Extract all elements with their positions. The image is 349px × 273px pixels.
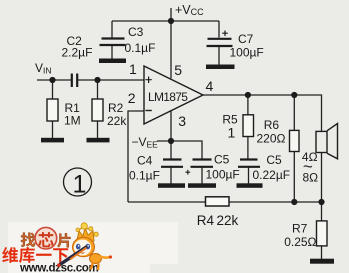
- capacitor C5a 100uF: [191, 160, 214, 167]
- wire C2 to pin1: [78, 79, 144, 81]
- resistor R5: [243, 115, 254, 137]
- node Vee junction: [168, 138, 174, 144]
- svg-text:22k: 22k: [107, 114, 127, 128]
- node circled figure 1: [64, 168, 92, 196]
- wire R2 bottom: [97, 121, 99, 139]
- watermark text yi: [36, 254, 52, 256]
- wire R5 top: [247, 95, 249, 115]
- mascot crown: [77, 228, 94, 242]
- svg-text:C3: C3: [128, 25, 144, 39]
- ground R1: [41, 138, 64, 143]
- wire C7 to ground: [218, 47, 220, 65]
- svg-text:0.25Ω: 0.25Ω: [284, 235, 316, 249]
- node bottom R6: [291, 199, 297, 205]
- wire C4 to ground: [170, 168, 172, 185]
- watermark seal circle: [35, 227, 57, 249]
- watermark text xia: [53, 248, 68, 262]
- resistor R4: [206, 197, 230, 206]
- wire R1 bottom: [52, 121, 54, 139]
- wire R7 bottom: [321, 246, 323, 260]
- C5a plus sign: [185, 170, 190, 175]
- resistor R2: [92, 99, 103, 121]
- svg-text:0.22µF: 0.22µF: [253, 168, 291, 182]
- speaker LS: [316, 124, 338, 159]
- capacitor C2: [72, 74, 77, 88]
- watermark backdrop: [8, 222, 178, 264]
- wire R5 to C5b: [247, 137, 249, 159]
- svg-text:100µF: 100µF: [206, 168, 240, 182]
- svg-text:100µF: 100µF: [230, 46, 264, 60]
- mascot legs: [91, 263, 99, 271]
- ground C7: [206, 65, 235, 70]
- wire pin2 feedback: [128, 111, 144, 202]
- watermark text pian: [57, 233, 70, 247]
- watermark text wei: [2, 247, 18, 263]
- wire output rail: [203, 95, 322, 131]
- watermark text xin: [38, 232, 53, 247]
- svg-text:3: 3: [178, 113, 186, 129]
- resistor R6: [290, 130, 300, 151]
- wire C5a to ground: [201, 168, 203, 185]
- svg-text:R4: R4: [197, 213, 215, 228]
- wire C4 top: [170, 141, 172, 159]
- ground C3: [99, 59, 126, 64]
- node bottom R7: [318, 199, 324, 205]
- mascot right arm: [100, 257, 110, 258]
- resistor R1: [47, 99, 58, 121]
- svg-text:1: 1: [228, 125, 236, 141]
- svg-text:1M: 1M: [64, 114, 81, 128]
- capacitor C3: [100, 39, 126, 46]
- op-amp U1 LM1875 triangle: [144, 66, 203, 124]
- wire R1 top: [52, 80, 54, 99]
- svg-text:C4: C4: [137, 154, 153, 168]
- svg-text:8Ω: 8Ω: [303, 171, 319, 185]
- svg-text:R2: R2: [108, 101, 124, 115]
- mascot pen: [59, 247, 88, 266]
- wire R7 top: [321, 202, 323, 221]
- svg-text:LM1875: LM1875: [148, 90, 188, 104]
- svg-text:2.2µF: 2.2µF: [62, 46, 93, 60]
- svg-text:R6: R6: [264, 118, 280, 132]
- svg-text:220Ω: 220Ω: [257, 132, 286, 146]
- wire C7 drop: [218, 21, 220, 38]
- node output R6: [291, 92, 297, 98]
- node input R1: [49, 77, 55, 83]
- wire C3 to ground: [111, 46, 113, 60]
- mascot body: [90, 254, 102, 264]
- svg-text:www.dzsc.com: www.dzsc.com: [19, 261, 99, 273]
- capacitor C5b 0.22uF: [238, 160, 260, 167]
- ground R7: [310, 259, 334, 264]
- node junction top Vcc: [168, 18, 174, 24]
- wire top rail: [112, 20, 219, 22]
- wire C3 drop: [111, 21, 113, 38]
- wire +Vcc stub: [170, 8, 172, 21]
- op-amp minus input mark: [145, 110, 151, 112]
- mascot eyes: [76, 244, 81, 250]
- svg-text:0.1µF: 0.1µF: [125, 41, 156, 55]
- svg-text:C5: C5: [266, 153, 282, 167]
- wire pin5 vertical: [170, 21, 172, 78]
- svg-text:1: 1: [73, 171, 87, 199]
- svg-text:4: 4: [206, 78, 214, 94]
- wire pin3: [170, 111, 172, 141]
- capacitor C4: [161, 160, 183, 167]
- wire bottom feedback rail: [128, 201, 322, 203]
- mascot head: [73, 237, 95, 257]
- ground C5a: [188, 183, 216, 188]
- wire R6 bottom: [293, 152, 295, 203]
- wire R2 top: [97, 80, 99, 99]
- svg-text:22k: 22k: [217, 213, 239, 228]
- svg-text:0.1µF: 0.1µF: [129, 169, 160, 183]
- wire speaker bottom: [321, 153, 323, 203]
- watermark text zhao: [21, 233, 35, 247]
- wire C5b to ground: [248, 168, 250, 185]
- svg-text:5: 5: [174, 62, 182, 78]
- svg-text:C5: C5: [214, 153, 230, 167]
- svg-text:R7: R7: [292, 222, 308, 236]
- node output R5: [245, 92, 251, 98]
- ground R2: [87, 138, 110, 143]
- capacitor C7: [207, 39, 233, 46]
- wire input: [37, 79, 71, 81]
- wire -Vee to C5a: [157, 141, 202, 159]
- svg-text:C7: C7: [238, 32, 254, 46]
- ground C5b: [237, 183, 263, 188]
- resistor R7: [317, 221, 328, 246]
- wire R6 top: [293, 95, 295, 130]
- watermark text ku: [19, 247, 35, 263]
- svg-text:2: 2: [128, 90, 136, 106]
- node input R2: [94, 77, 100, 83]
- ground C4: [158, 183, 185, 188]
- op-amp plus input mark: [145, 77, 151, 84]
- svg-text:1: 1: [129, 61, 137, 77]
- C7 plus sign: [222, 31, 228, 37]
